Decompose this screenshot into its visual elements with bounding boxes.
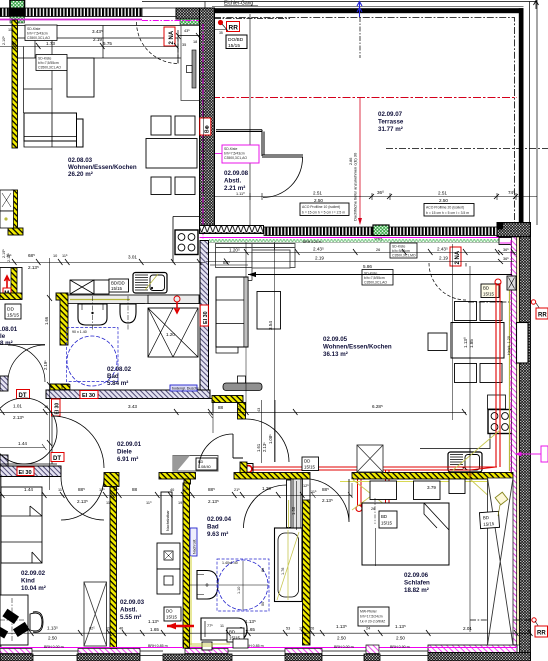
washer 02.08.01 xyxy=(0,268,22,299)
blue square bad xyxy=(217,559,269,611)
wall purple diele north xyxy=(46,390,210,399)
cross-hatch block top xyxy=(176,8,215,19)
EI 30 label on wall xyxy=(80,391,98,399)
svg-text:8 m²: 8 m² xyxy=(0,340,13,347)
svg-text:02.09.05: 02.09.05 xyxy=(323,336,348,343)
svg-text:BRH 0.00 m: BRH 0.00 m xyxy=(334,645,354,649)
Nachruestbar vertical box xyxy=(161,492,172,534)
svg-text:36⁵: 36⁵ xyxy=(503,248,509,252)
chair kind black xyxy=(2,609,19,624)
svg-text:2.13⁵: 2.13⁵ xyxy=(208,499,219,504)
svg-text:2.50: 2.50 xyxy=(337,636,346,641)
magenta line top-left xyxy=(0,19,142,21)
svg-text:18.82 m²: 18.82 m² xyxy=(404,587,429,594)
svg-text:82⁵: 82⁵ xyxy=(89,627,95,631)
svg-text:Schlafen: Schlafen xyxy=(404,580,430,587)
annotation box SD-Kiste top1 xyxy=(25,25,57,41)
svg-text:bodengl. Dusche: bodengl. Dusche xyxy=(172,387,199,391)
DD 15/15 box mid xyxy=(302,457,319,471)
closet door arc xyxy=(263,158,303,198)
magenta annotation box SD-Kiste xyxy=(222,145,259,163)
MW-Pfeiler box xyxy=(358,607,389,626)
svg-text:2.13⁵: 2.13⁵ xyxy=(262,442,267,452)
bed schlafen xyxy=(362,503,449,565)
small box right of vanity xyxy=(137,296,145,304)
svg-text:26: 26 xyxy=(376,248,380,252)
facade pier 2 xyxy=(78,649,140,654)
svg-text:5.55 m²: 5.55 m² xyxy=(120,614,141,621)
svg-text:11⁵: 11⁵ xyxy=(311,490,317,494)
svg-text:19: 19 xyxy=(178,501,182,505)
svg-text:2.13⁵: 2.13⁵ xyxy=(322,498,333,503)
heating line olive east xyxy=(509,280,511,471)
svg-text:B⊕: B⊕ xyxy=(205,125,211,133)
svg-text:BD: BD xyxy=(483,286,489,291)
svg-text:90 x 1.40: 90 x 1.40 xyxy=(72,330,87,334)
terrace right thick wall xyxy=(519,8,524,227)
olive fan box xyxy=(495,492,508,505)
svg-text:15/15: 15/15 xyxy=(7,313,19,319)
wall zigzag terrace bottom left part xyxy=(200,226,264,234)
dining chairs row2 xyxy=(151,177,171,195)
svg-text:02.09.01: 02.09.01 xyxy=(117,441,142,448)
svg-text:02.09.06: 02.09.06 xyxy=(404,572,429,579)
svg-text:Nachrüstbar: Nachrüstbar xyxy=(166,510,170,531)
dim line y412 xyxy=(0,411,466,413)
wall east cross-hatch outer xyxy=(520,237,531,661)
svg-text:BD: BD xyxy=(483,515,489,520)
svg-text:1.13⁵: 1.13⁵ xyxy=(395,624,406,629)
toilet bad xyxy=(197,571,218,600)
svg-text:15/15: 15/15 xyxy=(483,292,495,297)
svg-text:b = 15 cm h = 5 cm l = 3.5 m: b = 15 cm h = 5 cm l = 3.5 m xyxy=(426,211,469,215)
facade pier 5 xyxy=(366,645,379,654)
radiator niche xyxy=(223,383,262,391)
terrace dimension line xyxy=(212,196,537,198)
svg-text:3.43: 3.43 xyxy=(128,404,137,409)
door bad leaf+arc xyxy=(199,434,233,468)
RR bottom right xyxy=(470,619,531,621)
svg-text:21⁵: 21⁵ xyxy=(234,488,240,492)
svg-text:2.50: 2.50 xyxy=(314,198,323,203)
diele inner vertical dims xyxy=(208,412,213,433)
svg-text:1.65: 1.65 xyxy=(246,627,255,632)
interior verticals xyxy=(24,26,104,148)
side chair kind xyxy=(30,613,42,631)
terrace closet walls 02.09.08 xyxy=(216,130,303,157)
DT label xyxy=(17,390,30,399)
dim line y495 xyxy=(0,495,310,497)
fixtures left 02.08.01 kitchen col xyxy=(0,190,14,211)
wall yellow T junction xyxy=(104,473,119,487)
svg-text:2.21 m²: 2.21 m² xyxy=(224,185,245,192)
olive line bad xyxy=(190,556,192,645)
left wall line kind xyxy=(0,477,2,648)
black pier block left xyxy=(9,8,25,17)
svg-text:1.08⁵: 1.08⁵ xyxy=(268,434,273,444)
EI 30 label south xyxy=(17,467,34,476)
door arcs 02.08.01 xyxy=(8,345,45,382)
sideboard rect xyxy=(67,58,94,97)
vertical dim x261 xyxy=(261,400,263,463)
svg-text:EI 30: EI 30 xyxy=(19,470,32,476)
door arc bad xyxy=(244,485,287,528)
svg-text:SD-Kiste: SD-Kiste xyxy=(224,147,237,151)
svg-text:12⁵: 12⁵ xyxy=(303,484,309,488)
sofa 02.09.05 xyxy=(216,277,248,347)
svg-text:11: 11 xyxy=(58,488,62,492)
facade pier 1 xyxy=(0,649,32,654)
svg-text:15: 15 xyxy=(44,405,48,409)
svg-text:DO: DO xyxy=(166,609,173,614)
svg-text:15/15: 15/15 xyxy=(483,521,495,527)
svg-text:EI 30: EI 30 xyxy=(203,311,209,324)
svg-text:1.11⁰: 1.11⁰ xyxy=(236,192,245,196)
NA corridor counter xyxy=(181,26,201,101)
svg-text:C3500,3C1,MO: C3500,3C1,MO xyxy=(392,254,416,258)
svg-text:BD/DD: BD/DD xyxy=(111,281,125,286)
svg-text:88⁵: 88⁵ xyxy=(78,487,85,492)
svg-text:11⁵: 11⁵ xyxy=(238,405,242,411)
entry door arc top right xyxy=(429,263,466,300)
shaft bad xyxy=(293,479,301,530)
stove east xyxy=(488,410,512,434)
DO 15/15 box xyxy=(164,607,181,621)
svg-text:Bad: Bad xyxy=(107,373,119,380)
dash-dot at closet top xyxy=(215,18,290,20)
svg-text:Wohnen/Essen/Kochen: Wohnen/Essen/Kochen xyxy=(323,344,392,351)
green sill strip living north xyxy=(209,239,500,242)
svg-text:f,k-V 20-2.0/IIMZ: f,k-V 20-2.0/IIMZ xyxy=(360,620,385,624)
kitchen sink 02.08 xyxy=(133,273,167,294)
wall south-east crosshatch xyxy=(428,653,531,661)
svg-text:C3500,3C1,AO: C3500,3C1,AO xyxy=(224,156,247,160)
svg-text:2.19: 2.19 xyxy=(315,256,324,261)
blue vertical tag bad xyxy=(190,528,197,556)
balcony door arc top xyxy=(137,22,179,64)
wall yellow diele/living top xyxy=(212,396,243,403)
magenta sill line bottom xyxy=(0,647,517,649)
svg-text:02.08.02: 02.08.02 xyxy=(107,366,132,373)
svg-text:43: 43 xyxy=(257,408,261,412)
BD 15/15 box bad xyxy=(227,628,244,642)
svg-text:b/h=7,5/55cm: b/h=7,5/55cm xyxy=(38,61,59,65)
svg-text:le: le xyxy=(0,333,6,340)
window kind xyxy=(32,651,78,656)
svg-text:18: 18 xyxy=(193,40,197,44)
svg-text:Nachrüst.: Nachrüst. xyxy=(193,539,197,554)
DO/BD box top xyxy=(226,35,247,49)
terrace top thick wall xyxy=(212,8,524,13)
svg-text:Abstl.: Abstl. xyxy=(224,178,241,185)
svg-text:74⁰: 74⁰ xyxy=(508,190,515,195)
svg-text:1.08/40: 1.08/40 xyxy=(198,465,211,469)
svg-text:46: 46 xyxy=(119,627,123,631)
svg-text:1.01: 1.01 xyxy=(13,404,22,409)
magenta box right edge xyxy=(541,446,548,462)
svg-text:53: 53 xyxy=(286,627,290,631)
wall yellow south mid segment xyxy=(234,473,310,480)
svg-text:15/15: 15/15 xyxy=(166,615,178,620)
svg-text:Dachfläche tiefer anzunehmen c: Dachfläche tiefer anzunehmen c(E) 30 xyxy=(353,152,358,221)
svg-text:02.08.03: 02.08.03 xyxy=(68,157,93,164)
svg-text:68⁵: 68⁵ xyxy=(28,253,35,258)
green block below cross-hatch xyxy=(180,19,199,25)
svg-text:Kind: Kind xyxy=(21,578,35,585)
red NA label right xyxy=(450,247,461,266)
door arcs kind xyxy=(61,477,104,520)
green block in bottom wall xyxy=(373,225,389,236)
svg-text:36.13 m²: 36.13 m² xyxy=(323,351,348,358)
svg-text:12⁵: 12⁵ xyxy=(113,488,119,492)
window bad xyxy=(140,651,163,656)
svg-text:02.09.04: 02.09.04 xyxy=(207,516,232,523)
door living arc xyxy=(246,419,289,462)
svg-text:BD: BD xyxy=(381,514,387,519)
node axis line x250 xyxy=(249,14,251,226)
svg-text:3.54: 3.54 xyxy=(268,321,273,330)
svg-text:11⁵: 11⁵ xyxy=(62,254,68,258)
washbasin 02.08.02 xyxy=(78,304,107,325)
diele niche walls xyxy=(210,399,243,459)
wardrobe X living xyxy=(357,445,383,472)
washer stack abst xyxy=(157,543,180,569)
svg-text:88⁵: 88⁵ xyxy=(208,487,215,492)
BD 15/15 schlafen left xyxy=(379,511,397,528)
bathtub xyxy=(275,528,303,602)
wall ticked terrace bottom xyxy=(264,227,497,236)
svg-text:C3500,3C1,AO: C3500,3C1,AO xyxy=(364,281,387,285)
red drops to bedroom xyxy=(358,470,390,506)
dim 1.44 entry xyxy=(0,444,47,450)
svg-text:11⁵: 11⁵ xyxy=(182,488,188,492)
red roof dashed line horizontal xyxy=(212,97,517,99)
svg-text:11⁵: 11⁵ xyxy=(8,28,14,32)
svg-text:12⁵: 12⁵ xyxy=(99,488,105,492)
kitchen counter line xyxy=(173,217,199,263)
red heating mains horizontal xyxy=(253,467,497,470)
wardrobe X abst xyxy=(84,582,107,646)
diele door arc xyxy=(52,416,104,468)
DT label 2 xyxy=(51,453,64,462)
svg-text:12⁰: 12⁰ xyxy=(12,41,18,45)
svg-text:88⁵: 88⁵ xyxy=(322,487,329,492)
svg-text:2.86: 2.86 xyxy=(349,158,353,165)
svg-text:35: 35 xyxy=(182,43,186,47)
svg-text:Wohnen/Essen/Kochen: Wohnen/Essen/Kochen xyxy=(68,164,137,171)
svg-text:2.13⁵: 2.13⁵ xyxy=(77,499,88,504)
svg-text:RR: RR xyxy=(538,313,547,319)
svg-text:BRH 0.20 m: BRH 0.20 m xyxy=(303,240,322,244)
svg-text:02.09.02: 02.09.02 xyxy=(21,570,46,577)
window east xyxy=(517,323,529,364)
svg-text:RR: RR xyxy=(537,631,546,637)
svg-text:DD: DD xyxy=(304,459,310,464)
blue vent arrows xyxy=(359,2,361,17)
svg-text:SD-Kiste: SD-Kiste xyxy=(27,27,40,31)
magenta dashdot on east wall xyxy=(510,240,512,645)
wall purple center vertical xyxy=(200,241,209,399)
top opening lines xyxy=(142,2,205,17)
svg-text:EI 30: EI 30 xyxy=(82,393,95,399)
svg-text:BRH 0.00 m: BRH 0.00 m xyxy=(44,645,64,649)
red risers right xyxy=(496,283,500,467)
BD 15/15 box right xyxy=(481,284,499,298)
RR label top xyxy=(227,22,240,32)
svg-text:00: 00 xyxy=(261,602,265,606)
dim line y633 xyxy=(0,632,531,634)
svg-text:DD: DD xyxy=(7,307,14,313)
sofa 02.08.03 xyxy=(24,113,77,141)
svg-text:2.13⁵: 2.13⁵ xyxy=(7,253,11,262)
svg-text:15/15: 15/15 xyxy=(381,521,393,526)
wall yellow bad left lower xyxy=(50,384,69,393)
svg-text:15/15: 15/15 xyxy=(228,43,240,49)
terrace inner dash-dot boundary xyxy=(214,18,515,226)
svg-text:1.44: 1.44 xyxy=(18,441,27,446)
svg-text:11⁵: 11⁵ xyxy=(106,627,112,631)
svg-text:6.28⁵: 6.28⁵ xyxy=(372,404,383,409)
vent boxes bottom bad xyxy=(202,642,212,650)
closet kind xyxy=(1,487,42,563)
svg-text:31.77 m²: 31.77 m² xyxy=(378,126,403,133)
svg-text:Heizk. 1.20: Heizk. 1.20 xyxy=(507,336,511,355)
svg-text:1.13⁰: 1.13⁰ xyxy=(463,337,468,348)
wall center cross-hatch vertical xyxy=(200,8,215,226)
svg-text:1.66: 1.66 xyxy=(44,316,49,325)
facade pier 4 xyxy=(285,649,322,654)
svg-text:DO/BD: DO/BD xyxy=(228,37,244,43)
vertical dash-dot from arrows xyxy=(359,17,361,58)
svg-text:b = 15 cm h = 5 cm l = 2.5 m: b = 15 cm h = 5 cm l = 2.5 m xyxy=(302,211,345,215)
svg-text:26.20 m²: 26.20 m² xyxy=(68,171,93,178)
magenta line under terrace wall xyxy=(200,237,517,239)
green sill block left xyxy=(10,17,25,24)
kitchen east: counter xyxy=(420,395,490,472)
svg-text:1.13⁵: 1.13⁵ xyxy=(336,624,347,629)
svg-text:02.09.07: 02.09.07 xyxy=(378,111,403,118)
svg-text:2.50: 2.50 xyxy=(396,636,405,641)
svg-text:10.04 m²: 10.04 m² xyxy=(21,585,46,592)
red arrow bad xyxy=(167,625,194,628)
entry door circle xyxy=(0,398,57,464)
olive line below wall xyxy=(340,481,513,483)
svg-text:1.13⁵: 1.13⁵ xyxy=(245,619,256,624)
svg-text:88: 88 xyxy=(132,487,138,492)
svg-text:.08.01: .08.01 xyxy=(0,326,18,333)
wall return white piece right xyxy=(499,238,516,245)
svg-text:ACO Profiline 10 (isoliert): ACO Profiline 10 (isoliert) xyxy=(302,205,340,209)
terrace outer thin frame xyxy=(205,0,537,237)
bad dims inner xyxy=(219,561,268,610)
svg-text:2.51: 2.51 xyxy=(438,191,447,196)
svg-text:88: 88 xyxy=(261,568,265,572)
svg-text:02.09.03: 02.09.03 xyxy=(120,599,145,606)
svg-text:MW-Pfeiler: MW-Pfeiler xyxy=(360,610,378,614)
shower 02.08.02 xyxy=(148,308,198,357)
svg-text:RR: RR xyxy=(229,25,239,32)
svg-text:EI 30: EI 30 xyxy=(55,403,61,415)
svg-text:1.76: 1.76 xyxy=(281,568,285,575)
wall cross-hatch corner SE of terrace xyxy=(497,223,531,237)
window schlafen1 xyxy=(228,651,285,656)
svg-text:SD-Kiste: SD-Kiste xyxy=(392,245,405,249)
svg-text:2.50: 2.50 xyxy=(48,636,57,641)
svg-text:5.84 m²: 5.84 m² xyxy=(107,380,128,387)
door leaf bad xyxy=(287,480,292,528)
wall yellow south of living: left segment xyxy=(159,473,196,480)
svg-text:Abstl.: Abstl. xyxy=(120,607,137,614)
svg-text:6.91 m²: 6.91 m² xyxy=(117,456,138,463)
svg-text:2.50: 2.50 xyxy=(439,198,448,203)
svg-text:26: 26 xyxy=(371,507,375,511)
D30 vertical label xyxy=(52,399,61,416)
svg-text:ACO Profiline 20 (isoliert): ACO Profiline 20 (isoliert) xyxy=(426,206,464,210)
window block top-left xyxy=(10,0,25,9)
svg-text:3.01: 3.01 xyxy=(128,255,137,260)
room line xyxy=(0,344,45,346)
BD/DD box xyxy=(109,279,129,292)
svg-text:BD: BD xyxy=(229,630,235,635)
dining chairs row1 xyxy=(151,116,171,135)
svg-text:1.50: 1.50 xyxy=(291,506,296,515)
svg-text:BRH 0.85 m: BRH 0.85 m xyxy=(148,644,168,648)
vertical dim x203 upper xyxy=(203,100,205,196)
desk kind xyxy=(0,595,28,645)
magenta dashdot top to center wall xyxy=(142,21,203,25)
svg-text:C3500,3C1,AO: C3500,3C1,AO xyxy=(27,36,50,40)
wall left purple segments xyxy=(0,376,8,391)
wall yellow kind/abst xyxy=(110,487,117,648)
svg-text:11⁵: 11⁵ xyxy=(299,627,305,631)
SD-Kiste box mid xyxy=(362,270,393,286)
svg-text:35: 35 xyxy=(219,31,223,35)
svg-text:5.75: 5.75 xyxy=(103,41,112,46)
svg-text:36⁰: 36⁰ xyxy=(377,190,384,195)
window schlafen3 xyxy=(380,651,428,656)
svg-text:BD: BD xyxy=(198,460,204,464)
kitchen counter north xyxy=(216,244,296,268)
dim line y262 xyxy=(0,262,205,264)
svg-text:24: 24 xyxy=(366,627,370,631)
magenta dashdot along center wall xyxy=(202,24,204,240)
wall left yellow second xyxy=(12,190,18,230)
svg-text:15/15: 15/15 xyxy=(111,286,123,291)
svg-text:1.20: 1.20 xyxy=(166,332,175,337)
svg-text:02.09.08: 02.09.08 xyxy=(224,170,249,177)
svg-text:1.65: 1.65 xyxy=(150,627,159,632)
vertical dim x375 schlafen xyxy=(375,528,377,566)
sideboard BD 1.08/40 xyxy=(173,456,218,472)
svg-text:1.44: 1.44 xyxy=(24,487,33,492)
wall yellow south long segment xyxy=(352,473,513,480)
svg-text:2.13⁵: 2.13⁵ xyxy=(13,415,24,420)
wall yellow abst/bad xyxy=(183,483,190,648)
svg-text:Diele: Diele xyxy=(117,449,132,456)
svg-text:2.19: 2.19 xyxy=(439,256,448,261)
TV board xyxy=(257,292,281,330)
window schlafen2 xyxy=(322,651,366,656)
svg-text:1.20: 1.20 xyxy=(262,486,271,491)
red roof line vertical with arrow xyxy=(359,98,361,222)
svg-text:1.10: 1.10 xyxy=(237,587,241,594)
dining table 02.09.05 xyxy=(451,323,504,359)
blue turning circle 02.08.02 xyxy=(67,328,119,382)
wall east magenta hatch xyxy=(512,237,517,645)
svg-text:36⁵: 36⁵ xyxy=(503,257,509,261)
ACO box 1 xyxy=(300,203,349,216)
svg-text:C3500,3C1,AO: C3500,3C1,AO xyxy=(38,66,61,70)
